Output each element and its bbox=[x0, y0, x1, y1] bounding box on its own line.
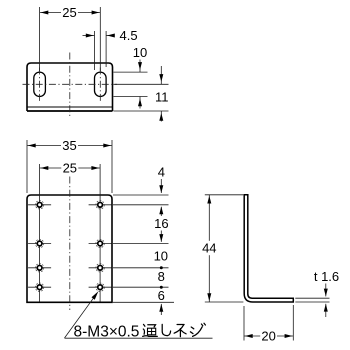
svg-text:16: 16 bbox=[154, 216, 168, 231]
svg-text:44: 44 bbox=[202, 240, 216, 255]
svg-text:6: 6 bbox=[158, 288, 165, 303]
svg-text:25: 25 bbox=[63, 161, 77, 176]
svg-text:4: 4 bbox=[158, 165, 165, 180]
svg-text:35: 35 bbox=[62, 138, 76, 153]
svg-text:25: 25 bbox=[62, 5, 76, 20]
svg-text:10: 10 bbox=[133, 45, 147, 60]
svg-text:8: 8 bbox=[158, 269, 165, 284]
svg-text:10: 10 bbox=[154, 249, 168, 264]
svg-text:4.5: 4.5 bbox=[120, 28, 138, 43]
svg-text:t 1.6: t 1.6 bbox=[314, 269, 339, 284]
svg-text:20: 20 bbox=[261, 329, 275, 344]
svg-text:11: 11 bbox=[155, 89, 169, 104]
svg-text:8-M3×0.5: 8-M3×0.5 bbox=[74, 323, 140, 340]
